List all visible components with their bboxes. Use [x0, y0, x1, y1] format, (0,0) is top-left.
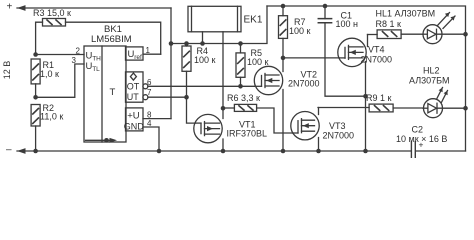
svg-text:4: 4 [147, 119, 152, 128]
resistor R9 1k [366, 93, 423, 112]
resistor R6 3,3k [223, 93, 293, 133]
svg-text:2N7000: 2N7000 [323, 131, 355, 141]
svg-text:100 к: 100 к [247, 57, 269, 67]
svg-text:GND: GND [124, 121, 145, 131]
node junction C1/top rail [323, 4, 328, 9]
node junction R5/bus [238, 41, 243, 46]
wire VT3 drain to R9 [318, 108, 320, 152]
node junction EK1/bus [200, 41, 205, 46]
wire pin3 UTL [36, 64, 84, 97]
node junction R7/top rail [281, 4, 286, 9]
svg-text:LM56BIM: LM56BIM [91, 34, 132, 45]
svg-text:1,0 к: 1,0 к [40, 69, 59, 79]
svg-text:+U: +U [127, 110, 140, 121]
LED HL2 AL307BM [409, 66, 466, 118]
svg-text:HL1 АЛ307ВМ: HL1 АЛ307ВМ [376, 9, 436, 19]
svg-text:100 н: 100 н [336, 19, 359, 29]
svg-text:АЛ307БМ: АЛ307БМ [409, 76, 450, 86]
svg-text:–: – [6, 145, 12, 156]
node junction C1/VT4 source [363, 94, 368, 99]
wire +12V bus under EK1 [171, 6, 267, 44]
wire pin4 GND to ground rail [143, 127, 159, 151]
capacitor C2 10uF polarized [396, 125, 447, 159]
svg-text:3: 3 [72, 56, 77, 65]
node junction VT3 source/ground [316, 149, 321, 154]
node junction R4/bus [184, 41, 189, 46]
resistor R1 1,0k [31, 59, 59, 84]
wire VT4 gate [283, 57, 339, 59]
wire EK1 right lead through VT1 to ground [222, 32, 224, 151]
heater EK1 [188, 6, 263, 32]
node junction R5/pin6 [238, 84, 243, 89]
transistor VT2 2N7000 (n-channel mosfet) [254, 66, 319, 94]
svg-text:VT4: VT4 [368, 45, 385, 55]
wire +12V drop to bus [170, 8, 172, 119]
transistor VT4 2N7000 (n-channel mosfet) [338, 38, 392, 66]
resistor R7 100k [279, 6, 311, 151]
svg-text:TH: TH [92, 55, 101, 62]
svg-text:8: 8 [147, 111, 152, 120]
transistor VT3 2N7000 (n-channel mosfet) [291, 112, 354, 141]
wire pin6 OT to VT2 gate [148, 85, 256, 87]
svg-text:TL: TL [92, 66, 100, 73]
op-amp U1 / IC BK1 LM56BIM main box [84, 24, 132, 142]
resistor R8 1k [376, 19, 423, 39]
svg-text:VT3: VT3 [329, 121, 346, 131]
resistor R3 15,0k [33, 8, 161, 55]
node ground arrow [17, 148, 26, 154]
node +12V input arrow [17, 5, 26, 11]
node OT/UT field of BK1 [126, 72, 148, 102]
wire pin1 Uref to R3 [143, 53, 161, 55]
wire pin8 +U to +12V drop [143, 118, 171, 120]
wire top-right rail [267, 6, 466, 151]
svg-text:EK1: EK1 [244, 15, 263, 26]
svg-text:R9 1 к: R9 1 к [366, 93, 392, 103]
svg-text:R3 15,0 к: R3 15,0 к [33, 8, 71, 18]
svg-text:100 к: 100 к [194, 55, 216, 65]
wire VT4 drain corner to R8 [368, 34, 378, 36]
svg-text:6: 6 [147, 78, 152, 87]
resistor R4 100k [182, 44, 216, 98]
svg-text:UT: UT [127, 92, 139, 102]
svg-text:11,0 к: 11,0 к [40, 112, 63, 122]
node junction VT2 source/ground [281, 149, 286, 154]
node junction R3/R1/pin2 [33, 52, 38, 57]
wire pin2 UTH [36, 54, 84, 56]
svg-text:1: 1 [146, 46, 151, 55]
wire bottom ground rail [17, 150, 411, 152]
node junction R1/R2/pin3 [33, 95, 38, 100]
wire VT4 drain to R8 [366, 35, 368, 152]
svg-text:100 к: 100 к [289, 26, 311, 36]
node junction R7/VT2 drain/VT4 gate [281, 56, 286, 61]
wire EK1 left lead to bus [202, 32, 204, 44]
svg-text:IRF370BL: IRF370BL [227, 129, 268, 139]
node junction R4/pin7 [184, 95, 189, 100]
LED HL1 AL307VM [376, 9, 466, 44]
svg-text:2N7000: 2N7000 [288, 79, 320, 89]
node junction VT1 source/ground [221, 149, 226, 154]
wire R2 to ground [35, 126, 37, 151]
svg-text:+: + [7, 2, 13, 13]
wire bottom rail right of C2 [416, 150, 466, 152]
svg-text:10 мк × 16 В: 10 мк × 16 В [396, 134, 447, 144]
node junction HL2/right rail [463, 106, 468, 111]
svg-text:HL2: HL2 [423, 66, 440, 76]
wire +12V top-left rail [17, 7, 171, 9]
svg-text:R8 1 к: R8 1 к [376, 19, 402, 29]
svg-text:7: 7 [147, 88, 152, 97]
node junction pin4/ground [157, 149, 162, 154]
resistor R2 11,0k [31, 103, 63, 126]
transistor VT1 IRF370BL (p-channel mosfet) [194, 114, 267, 142]
svg-text:2: 2 [76, 47, 81, 56]
node temperature sensor arrow inside BK1 [86, 138, 118, 143]
node junction +12 drop on bus [169, 41, 174, 46]
node Uref field of BK1 [126, 47, 144, 61]
node +U/GND field of BK1 [124, 108, 145, 131]
svg-text:ref: ref [134, 54, 142, 61]
wire pin7 UT [148, 96, 187, 98]
svg-text:T: T [110, 87, 116, 98]
resistor R5 100k [236, 44, 269, 87]
node junction VT4 source/ground [363, 149, 368, 154]
svg-text:OT: OT [127, 81, 140, 91]
wire pin7 net to VT1 gate [187, 97, 196, 123]
node junction R2/ground [33, 149, 38, 154]
node junction R6/VT1 drain [221, 106, 226, 111]
node junction HL1/right rail [463, 32, 468, 37]
svg-text:R6 3,3 к: R6 3,3 к [227, 93, 260, 103]
svg-text:12 В: 12 В [2, 61, 12, 80]
capacitor C1 100n [318, 6, 365, 96]
svg-text:C2: C2 [412, 125, 424, 135]
